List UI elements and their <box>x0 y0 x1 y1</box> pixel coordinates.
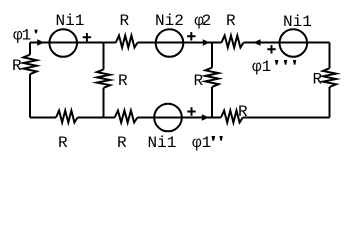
wire top horizontal <box>30 42 116 44</box>
svg-text:R: R <box>238 103 248 121</box>
resistor R middle vertical 1 <box>97 70 110 88</box>
arrow on top wire into node phi1' (pointing right) <box>37 39 44 46</box>
voltage source Ni1 bottom circle <box>154 104 182 132</box>
svg-text:R: R <box>118 72 128 90</box>
wire bottom right segment <box>243 117 330 119</box>
resistor R bottom-mid horizontal <box>115 111 138 123</box>
svg-text:R: R <box>120 12 130 30</box>
svg-text:φ2: φ2 <box>194 12 210 30</box>
arrow on top wire from Ni1 top-right (pointing left) <box>253 39 260 46</box>
resistor R top-right horizontal <box>222 36 244 48</box>
wire middle vertical 2 upper <box>211 43 213 68</box>
svg-text:φ1: φ1 <box>192 134 211 152</box>
voltage source Ni1 top-right circle <box>280 29 308 57</box>
svg-text:φ1: φ1 <box>252 58 271 76</box>
resistor R bottom-right horizontal <box>221 111 243 123</box>
wire middle vertical 1 upper <box>103 43 105 70</box>
svg-text:φ1: φ1 <box>13 27 31 45</box>
arrow on top wire into node phi2 (pointing right) <box>203 39 210 46</box>
svg-text:R: R <box>226 12 236 30</box>
wire top mid segment <box>138 42 222 44</box>
arrow on bottom wire into node phi1'' (pointing right) <box>202 114 209 121</box>
resistor R middle vertical 2 <box>205 68 218 87</box>
svg-text:Ni1: Ni1 <box>56 12 85 30</box>
resistor R top-left horizontal <box>116 36 138 48</box>
plus sign of Ni1 top-left <box>83 33 91 41</box>
wire left edge lower <box>29 74 31 117</box>
wire middle vertical 2 lower <box>211 87 213 118</box>
svg-text:Ni1: Ni1 <box>148 134 177 152</box>
svg-text:Ni1: Ni1 <box>283 13 312 31</box>
svg-text:R: R <box>313 71 323 89</box>
resistor R left edge vertical <box>23 55 36 75</box>
svg-text:R: R <box>117 134 127 152</box>
wire bottom left segment <box>30 117 56 119</box>
wire top right segment <box>244 42 330 44</box>
svg-text:R: R <box>194 72 204 90</box>
plus sign of Ni2 <box>187 32 195 40</box>
resistor R right edge vertical <box>323 68 336 87</box>
wire bottom segment to junction <box>137 117 221 119</box>
svg-text:R: R <box>12 57 22 75</box>
svg-text:Ni2: Ni2 <box>155 12 184 30</box>
svg-text:R: R <box>58 134 68 152</box>
wire middle vertical 1 lower <box>103 88 105 118</box>
wire bottom mid segment <box>78 117 115 119</box>
voltage source Ni2 circle <box>156 29 184 57</box>
wire right edge upper <box>329 43 331 69</box>
plus sign of Ni1 bottom <box>187 107 195 115</box>
wire left edge upper <box>29 43 31 55</box>
plus sign of Ni1 top-right <box>267 45 275 53</box>
wire right edge lower <box>329 87 331 118</box>
voltage source Ni1 top-left circle <box>49 29 77 57</box>
resistor R bottom-left horizontal <box>56 111 78 123</box>
